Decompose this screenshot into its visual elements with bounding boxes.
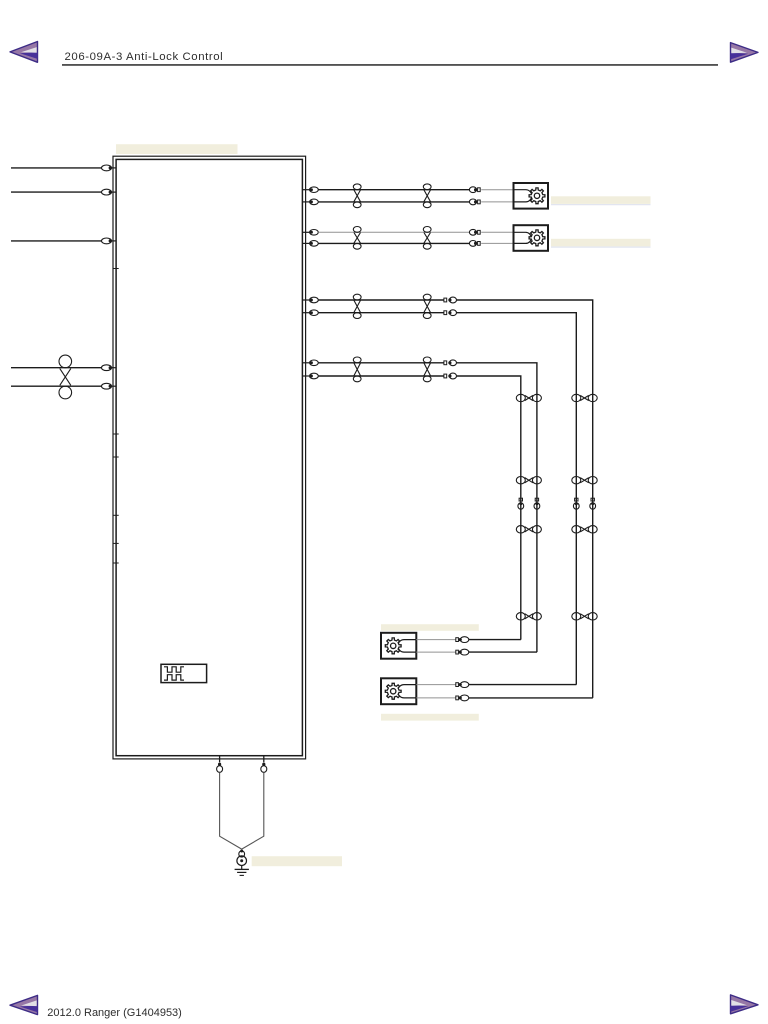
connector pin C2 at module left edge — [102, 189, 117, 195]
wire P3A run to turn — [457, 300, 593, 698]
wire S3 bottom pigtail — [416, 651, 455, 653]
wire left input 4 — [11, 367, 102, 369]
wire S4 top pigtail — [416, 684, 455, 686]
module ground pin stub 1 — [219, 756, 221, 763]
page header title text — [65, 51, 224, 63]
solid-state icon square wave bottom — [164, 675, 184, 680]
connector at module edge P4A — [310, 360, 319, 366]
sensor coil bracket S4 — [397, 685, 416, 698]
page header rule — [62, 64, 718, 66]
twisted-pair symbol 1 P2 — [353, 227, 361, 250]
module pin stub P2B — [303, 242, 310, 244]
inline connector S4 bottom — [456, 695, 469, 701]
sensor coil bracket S3 — [398, 640, 416, 653]
unused pin tick 6 on module left edge — [113, 562, 119, 564]
ground stem — [241, 866, 243, 870]
inline connector P1B — [469, 199, 480, 205]
wire left input 5 — [11, 385, 102, 387]
ground pin connector 1 — [217, 763, 223, 773]
page header navigation arrow (next) — [731, 43, 759, 63]
twisted-pair symbol 2 P2 — [423, 227, 431, 250]
connector at module edge P2A — [310, 230, 319, 236]
wire S3 bottom link — [469, 651, 537, 653]
solid-state icon square wave top — [164, 667, 184, 672]
wire P4A harness — [318, 362, 444, 364]
wire S4 bottom pigtail — [416, 697, 455, 699]
inline connector on vertical run x=536.9 — [534, 498, 540, 509]
module pin stub P1A — [303, 189, 310, 191]
highlight label bar above upper rear sensor (redacted) — [381, 624, 479, 631]
twisted-pair symbol 3 on vertical run P3 — [572, 613, 597, 620]
svg-text:206-09A-3 Anti-Lock Control: 206-09A-3 Anti-Lock Control — [65, 51, 224, 63]
sensor tone ring gear S4 — [385, 683, 401, 699]
inline connector on vertical run x=520.8 — [518, 498, 524, 509]
ground pin connector 2 — [261, 763, 267, 773]
connector pin C3 at module left edge — [102, 238, 117, 244]
wire P2B harness — [318, 242, 469, 244]
wire S4 bottom link — [469, 697, 593, 699]
rear wheel speed sensor box S3 — [381, 633, 416, 659]
inline connector P2A — [469, 229, 480, 235]
unused pin tick 3 on module left edge — [113, 456, 119, 458]
twisted-pair symbol 1 P1 — [353, 184, 361, 208]
inline connector S4 top — [456, 682, 469, 688]
sensor coil bracket P1 — [514, 190, 532, 202]
ground eyelet G — [237, 856, 247, 866]
twisted-pair symbol 2 P3 — [423, 294, 431, 318]
twisted-pair symbol on vertical run P3 — [572, 477, 597, 484]
inline connector P3A — [444, 297, 457, 303]
ground symbol bar 1 — [235, 868, 249, 870]
wire P1A sensor pigtail — [481, 189, 513, 191]
wire P4B harness — [318, 375, 444, 377]
twisted-pair symbol 1 P3 — [353, 294, 361, 318]
module pin stub P4A — [303, 362, 310, 364]
module pin stub P3B — [303, 312, 310, 314]
wire P2A sensor pigtail — [481, 231, 513, 233]
connector at module edge P3A — [310, 297, 319, 303]
module pin stub P4B — [303, 375, 310, 377]
twisted-pair symbol 0 on vertical run P4 — [516, 394, 541, 401]
sensor coil bracket P2 — [514, 232, 532, 243]
twisted-pair symbol 2 on vertical run P4 — [516, 526, 541, 533]
twisted-pair symbol on left input pair — [59, 355, 72, 399]
unused pin tick 5 on module left edge — [113, 542, 119, 544]
ground wire left — [220, 772, 242, 849]
wheel speed sensor box P1 — [514, 183, 549, 209]
rear wheel speed sensor box S4 — [381, 678, 416, 704]
highlight label bar (module name, redacted) — [116, 144, 238, 154]
ground symbol bar 2 — [237, 871, 246, 873]
wheel speed sensor box P2 — [514, 225, 549, 251]
wire P2B sensor pigtail — [481, 242, 513, 244]
connector at module edge P3B — [310, 310, 319, 316]
solid-state device icon frame inside module — [161, 664, 207, 682]
wire P3A harness — [318, 299, 444, 301]
highlight label bar below lower rear sensor (redacted) — [381, 714, 479, 721]
wire left input 3 — [11, 240, 102, 242]
module ground pin stub 2 — [263, 756, 265, 763]
twisted-pair symbol 0 on vertical run P3 — [572, 394, 597, 401]
wire P1B harness — [318, 201, 469, 203]
wire left input 1 — [11, 167, 102, 169]
twisted-pair symbol 2 P4 — [423, 357, 431, 382]
twisted-pair symbol 1 P4 — [353, 357, 361, 382]
page footer text — [47, 1007, 182, 1019]
wire S3 top link — [469, 639, 521, 641]
twisted-pair symbol on vertical run P4 — [516, 477, 541, 484]
inline connector P3B — [444, 310, 457, 316]
highlight label bar for sensor P2 (redacted) — [551, 239, 651, 247]
wire left input 2 — [11, 191, 102, 193]
ground symbol bar 3 — [240, 874, 244, 876]
wire P3B run to turn — [457, 313, 577, 685]
svg-text:2012.0 Ranger (G1404953): 2012.0 Ranger (G1404953) — [47, 1007, 182, 1019]
inline connector P4A — [444, 360, 457, 366]
highlight label bar for sensor P1 (redacted) — [551, 196, 651, 204]
wire P1B sensor pigtail — [481, 201, 513, 203]
sensor tone ring gear P1 — [529, 188, 545, 204]
connector pin C4 at module left edge — [102, 365, 117, 371]
ABS module U1 outer box — [113, 156, 306, 759]
page header navigation arrow (previous) — [10, 42, 38, 63]
wire S4 top link — [469, 684, 577, 686]
module pin stub P1B — [303, 201, 310, 203]
unused pin tick 2 on module left edge — [113, 433, 119, 435]
page footer navigation arrow (next) — [731, 995, 759, 1014]
unused pin tick 4 on module left edge — [113, 514, 119, 516]
module pin stub P3A — [303, 299, 310, 301]
wire P2A harness — [318, 231, 469, 233]
ground splice connector — [239, 850, 245, 858]
page footer navigation arrow (previous) — [10, 995, 38, 1014]
module pin stub P2A — [303, 231, 310, 233]
twisted-pair symbol 2 P1 — [423, 184, 431, 208]
inline connector P1A — [469, 187, 480, 193]
ground wire right — [242, 772, 264, 849]
connector at module edge P4B — [310, 373, 319, 379]
connector at module edge P2B — [310, 241, 319, 247]
wire P4B run to turn — [457, 376, 521, 640]
twisted-pair symbol 2 on vertical run P3 — [572, 526, 597, 533]
wire P1A harness — [318, 189, 469, 191]
connector at module edge P1A — [310, 187, 319, 193]
sensor tone ring gear P2 — [529, 230, 545, 246]
inline connector S3 top — [456, 637, 469, 643]
wire P3B harness — [318, 312, 444, 314]
inline connector on vertical run x=576.3 — [573, 498, 579, 509]
connector pin C5 at module left edge — [102, 383, 117, 389]
wire P4A run to turn — [457, 363, 537, 652]
sensor tone ring gear S3 — [385, 638, 401, 654]
connector at module edge P1B — [310, 199, 319, 205]
wire S3 top pigtail — [416, 639, 455, 641]
inline connector on vertical run x=592.7 — [590, 498, 596, 509]
inline connector S3 bottom — [456, 649, 469, 655]
inline connector P4B — [444, 373, 457, 379]
ABS module U1 inner box — [116, 159, 302, 755]
unused pin tick 1 on module left edge — [113, 268, 119, 270]
twisted-pair symbol 3 on vertical run P4 — [516, 613, 541, 620]
inline connector P2B — [469, 241, 480, 247]
connector pin C1 at module left edge — [102, 165, 117, 171]
highlight label bar at ground (redacted) — [252, 856, 342, 866]
